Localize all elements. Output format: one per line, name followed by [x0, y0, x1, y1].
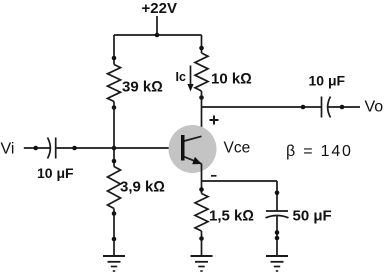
node: dot before Vo [340, 105, 345, 110]
label - (Vce minus) [211, 175, 217, 177]
wire: bypass branch vertical upper [276, 181, 278, 211]
svg-text:10 μF: 10 μF [309, 73, 346, 89]
wire: right vertical upper segment [201, 35, 203, 53]
node: dot after input cap [72, 146, 77, 151]
node: R 3.9k top dot [112, 159, 117, 164]
node: R 1.5k bottom dot [199, 236, 204, 241]
svg-text:10 kΩ: 10 kΩ [211, 71, 252, 88]
capacitor 10uF input: straight plate [55, 138, 57, 159]
capacitor 10uF output: curved plate [328, 97, 331, 118]
wire: emitter leg to ground [201, 231, 203, 256]
transistor Q1 collector stroke [184, 136, 201, 141]
node: supply junction dot [155, 33, 160, 38]
node: dot on Vi lead [33, 146, 38, 151]
wire: cap to Vo [328, 106, 360, 108]
resistor 10k [195, 53, 208, 91]
ground (right) [266, 256, 288, 271]
capacitor 50uF: curved plate [266, 216, 289, 218]
transistor Q1 emitter stroke with arrow [184, 157, 202, 165]
node: R 1.5k top dot [199, 187, 204, 192]
wire: left vertical middle segment [113, 102, 115, 167]
node: dot above left ground [112, 237, 117, 242]
wire: left vertical lower segment [113, 209, 115, 257]
svg-text:3,9 kΩ: 3,9 kΩ [120, 179, 165, 196]
svg-text:50 μF: 50 μF [293, 208, 332, 225]
wire: +22V supply stub [156, 16, 158, 35]
node: R 39k bottom dot [112, 105, 117, 110]
node: R 10k top dot [199, 46, 204, 51]
capacitor 50uF: straight plate [266, 210, 288, 212]
wire: bypass branch vertical lower [276, 216, 278, 256]
transistor Q1 highlight circle [169, 125, 217, 173]
svg-text:Ic: Ic [176, 70, 186, 84]
svg-text:Vo: Vo [365, 99, 384, 116]
capacitor 10uF input: curved plate [48, 138, 51, 159]
resistor 3.9k [108, 167, 121, 209]
resistor 39k [108, 65, 121, 102]
svg-text:Vce: Vce [224, 140, 251, 157]
wire: left vertical upper segment [113, 35, 115, 65]
wire: top rail [114, 34, 202, 36]
wire: output line to coupling cap [202, 106, 322, 108]
svg-text:β = 140: β = 140 [286, 143, 353, 160]
node: R 10k bottom dot / collector node [199, 95, 204, 100]
wire: emitter horizontal to bypass branch [202, 180, 278, 182]
svg-text:39 kΩ: 39 kΩ [122, 79, 163, 96]
current Ic arrow [187, 66, 193, 92]
capacitor 10uF output: straight plate [321, 97, 323, 118]
ground (left) [103, 256, 125, 271]
wire: base wire [56, 147, 181, 149]
label + (Vce plus) [210, 116, 219, 125]
resistor 1.5k [195, 194, 208, 232]
wire: collector vertical segment [201, 91, 203, 137]
node: dot pair above right ground [275, 230, 280, 240]
wire: Vi lead [24, 147, 50, 149]
svg-text:Vi: Vi [1, 141, 15, 158]
svg-text:+22V: +22V [142, 0, 177, 17]
ground (middle) [191, 256, 213, 271]
node: R 39k top dot [112, 56, 117, 61]
svg-text:1,5 kΩ: 1,5 kΩ [209, 208, 254, 225]
wire: emitter vertical [201, 164, 203, 194]
node: R 3.9k bottom dot [112, 211, 117, 216]
transistor Q1 base bar [181, 135, 185, 161]
node: base junction dot [112, 146, 117, 151]
svg-text:10 μF: 10 μF [37, 165, 74, 181]
node: dot on bypass branch [275, 191, 280, 196]
node: dot on output wire [301, 105, 306, 110]
